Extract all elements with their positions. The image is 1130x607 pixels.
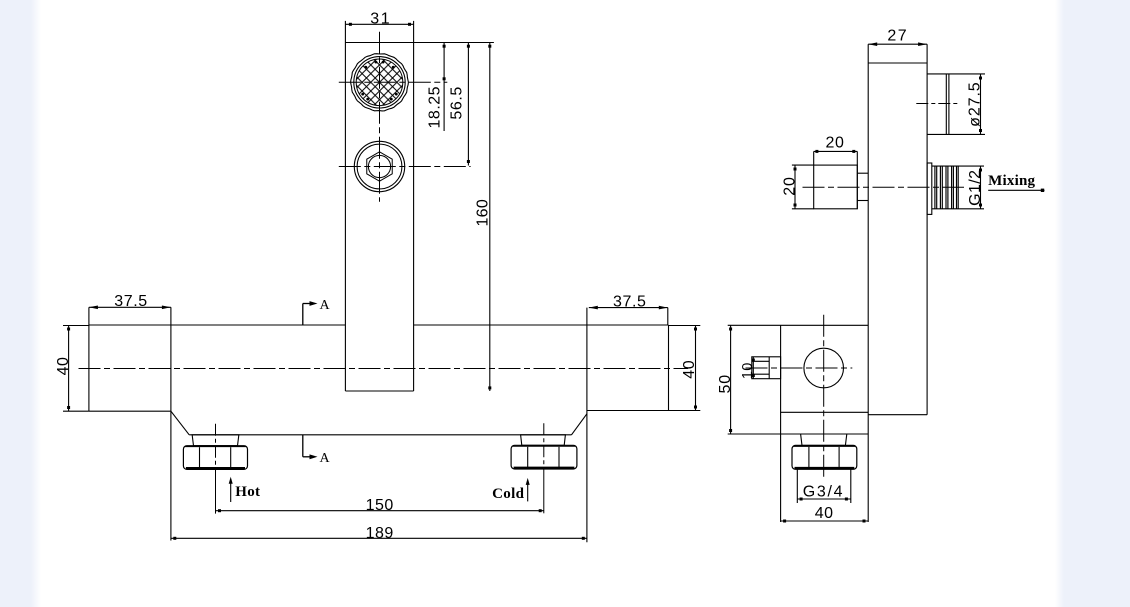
- knob centerline horizontal: [339, 81, 448, 83]
- svg-text:50: 50: [717, 374, 734, 393]
- G1/2 threads: [932, 165, 984, 167]
- bar left cap: [88, 307, 90, 411]
- dim 27 line: [868, 43, 927, 45]
- bar right cap: [668, 325, 670, 411]
- svg-text:40: 40: [55, 357, 72, 376]
- cold arrow: [527, 482, 529, 502]
- knob centerline vertical: [379, 32, 381, 202]
- diverter handle: [814, 165, 858, 209]
- block centerline vertical: [823, 315, 825, 480]
- hot nut centerline: [215, 424, 217, 471]
- dim 189 line: [171, 537, 587, 539]
- outlet flange: [927, 163, 932, 214]
- dim 40 right line: [695, 326, 697, 411]
- hex knob centerline horizontal: [339, 166, 471, 168]
- svg-text:Hot: Hot: [235, 484, 260, 500]
- svg-text:189: 189: [366, 525, 394, 542]
- cold inlet nut: [521, 435, 566, 446]
- dim 37.5 left line: [89, 306, 171, 308]
- port circle centerline horizontal: [746, 367, 853, 369]
- dim 40 left line: [68, 326, 70, 412]
- bar bottom with chamfers: [171, 411, 189, 435]
- knurl pattern dots: [375, 61, 378, 64]
- dim 20 left line: [794, 165, 796, 209]
- svg-text:27: 27: [887, 27, 908, 44]
- dim 20 left ext: [792, 164, 814, 166]
- side inlet nut: [801, 434, 847, 445]
- svg-text:A: A: [319, 298, 330, 313]
- svg-text:Cold: Cold: [492, 486, 524, 502]
- svg-text:G3/4: G3/4: [803, 483, 845, 500]
- svg-text:31: 31: [370, 11, 391, 28]
- bar left cap boundary / extension: [170, 307, 172, 540]
- dim 50 line: [730, 325, 732, 434]
- outlet cylinder: [927, 73, 985, 75]
- hot inlet nut: [192, 435, 239, 446]
- svg-text:10: 10: [740, 362, 756, 379]
- bar right boundary / extension: [586, 308, 588, 543]
- outlet cylinder centerline: [916, 103, 960, 105]
- dim G1/2 line: [980, 166, 982, 209]
- dim 18.25 line: [443, 43, 445, 132]
- handle neck: [857, 172, 868, 174]
- dim 40 right ext: [669, 325, 701, 327]
- side body outline: [867, 63, 869, 522]
- bar top edge: [89, 324, 346, 326]
- check nipple: [752, 357, 781, 379]
- dim G3/4 line: [797, 498, 851, 500]
- port circle: [804, 348, 844, 388]
- svg-text:20: 20: [781, 176, 798, 195]
- handle centerline: [803, 186, 965, 188]
- section mark A bottom: [302, 435, 304, 457]
- svg-text:37.5: 37.5: [613, 294, 647, 311]
- dim 10 line: [752, 357, 754, 379]
- dim 40 bottom line: [781, 520, 869, 522]
- svg-text:Mixing: Mixing: [988, 173, 1035, 189]
- svg-text:56.5: 56.5: [449, 86, 466, 120]
- svg-text:37.5: 37.5: [114, 293, 148, 310]
- dim dia27.5 line: [980, 74, 982, 134]
- svg-text:18.25: 18.25: [427, 86, 444, 129]
- svg-text:A: A: [319, 451, 330, 466]
- dim G3/4 ext: [796, 469, 798, 503]
- riser column outline: [344, 43, 346, 392]
- svg-text:40: 40: [681, 360, 698, 379]
- dim 40 left ext: [63, 325, 89, 327]
- svg-text:G1/2: G1/2: [967, 170, 984, 206]
- dim 20 top line: [814, 150, 858, 152]
- dim 56.5 line: [467, 43, 469, 166]
- svg-text:150: 150: [366, 497, 394, 514]
- mixing arrow: [988, 189, 1044, 191]
- svg-text:ø27.5: ø27.5: [967, 81, 984, 126]
- svg-text:40: 40: [815, 505, 834, 522]
- side block outline: [780, 325, 782, 522]
- dim 37.5 right line: [589, 307, 668, 309]
- dim 160 line: [489, 43, 491, 392]
- hot arrow: [230, 481, 232, 503]
- section mark A top: [302, 304, 304, 325]
- svg-text:160: 160: [475, 199, 492, 227]
- bar centerline: [79, 368, 689, 370]
- dim 37.5 right ext: [667, 308, 669, 325]
- dim 31 line: [345, 23, 413, 25]
- cold nut centerline: [543, 423, 545, 471]
- dim 150 line: [216, 510, 544, 512]
- dim 31 extension lines: [344, 21, 346, 43]
- svg-text:20: 20: [826, 135, 845, 152]
- hex-socket knob circles: [354, 141, 404, 191]
